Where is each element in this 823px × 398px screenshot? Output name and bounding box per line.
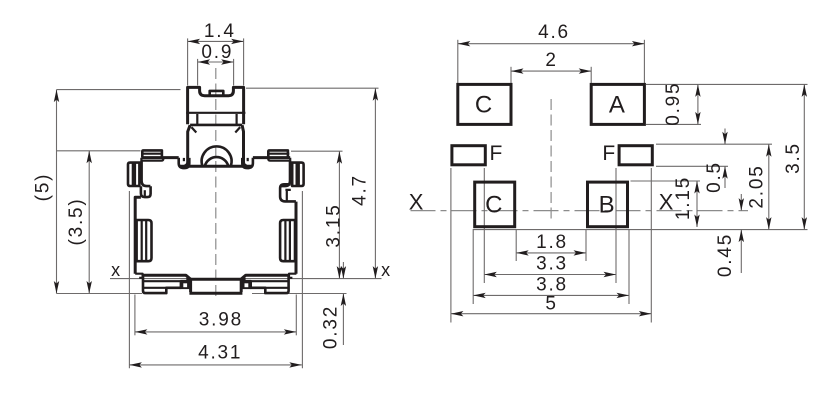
cover bump right inner: [285, 190, 290, 201]
dimension (3.5): [88, 151, 90, 294]
svg-text:(3.5): (3.5): [66, 197, 87, 245]
extension line ext 1.4 right: [243, 38, 245, 85]
plunger skirt inner chamfer right: [235, 127, 240, 132]
side clip upper left: [128, 163, 141, 186]
dimension 4.31: [129, 364, 301, 366]
plunger skirt left: [185, 125, 191, 166]
center tray: [189, 280, 242, 293]
extension line ext pad F bottom: [656, 165, 728, 167]
svg-text:1.4: 1.4: [204, 21, 236, 42]
dimension 0.9: [198, 61, 234, 63]
extension line ext 3.8 right: [628, 229, 630, 304]
side clip lower left slats: [142, 220, 147, 261]
cover top left: [141, 156, 178, 159]
svg-text:X: X: [409, 189, 425, 214]
dome inner arc: [205, 157, 229, 166]
land pattern centerline X-X: [411, 210, 749, 212]
plunger head outline: [188, 87, 244, 124]
side clip lower left: [137, 220, 152, 261]
dimension 1.8: [516, 252, 586, 254]
extension line ext 4.31 left: [128, 191, 130, 368]
svg-text:(5): (5): [33, 173, 54, 202]
extension line ext 1.8 right: [585, 229, 587, 261]
extension line ext pad A top: [646, 83, 808, 85]
svg-text:C: C: [475, 92, 494, 119]
extension line ext pad A bottom: [646, 123, 701, 125]
extension line ext 4.31 right: [301, 191, 303, 368]
bottom flange left: [135, 274, 142, 278]
extension line body top level left: [57, 150, 141, 152]
dimension 3.98: [135, 331, 296, 333]
extension line terminal bottom level left: [57, 293, 143, 295]
cover lip hook right: [242, 158, 253, 168]
dimension 1.15: [696, 181, 698, 227]
dimension 4.7: [374, 88, 376, 278]
svg-text:F: F: [489, 142, 504, 165]
dimension 3.8: [473, 294, 629, 296]
extension line ext 1.4 left: [187, 38, 189, 85]
plunger skirt inner chamfer left: [191, 127, 196, 132]
extension line seating plane x-x: [110, 278, 382, 280]
extension line ext 5 right: [650, 168, 652, 323]
svg-text:4.6: 4.6: [538, 22, 570, 43]
extension line ext 3.8 left: [472, 229, 474, 304]
extension line plunger top level left: [57, 89, 181, 91]
dimension 4.6: [458, 43, 645, 45]
terminal right laminations: [251, 281, 289, 293]
side clip upper right: [290, 163, 303, 186]
cover corner left: [142, 161, 151, 186]
svg-text:3.3: 3.3: [536, 254, 568, 275]
terminal foot left: [181, 280, 190, 289]
terminal right: [251, 275, 289, 293]
extension line plunger top level right: [246, 87, 379, 89]
plunger skirt flange: [190, 124, 242, 127]
bottom flange right: [289, 274, 296, 278]
extension line ext 2 right: [590, 67, 592, 83]
cover tab left: [142, 150, 162, 157]
svg-text:0.32: 0.32: [321, 305, 342, 349]
pad C bottom: [475, 182, 515, 227]
extension line ext 1.8 left: [515, 229, 517, 261]
centerline of switch: [215, 68, 217, 300]
extension line ext 3.3 right: [615, 168, 617, 283]
cover bump right: [280, 184, 296, 201]
svg-text:0.95: 0.95: [663, 82, 684, 126]
dimension 3.15: [338, 151, 340, 278]
svg-text:B: B: [599, 192, 617, 219]
extension line terminal bottom level right: [252, 293, 347, 295]
terminal left laminations: [143, 281, 181, 293]
cover tab left slat: [142, 153, 162, 155]
svg-text:0.5: 0.5: [704, 161, 725, 193]
svg-text:2.05: 2.05: [747, 164, 768, 208]
pad C top: [458, 84, 511, 124]
dimension 0.95: [697, 84, 699, 124]
pad A: [591, 84, 644, 124]
extension line ext pad B top: [631, 180, 701, 182]
dimension 0.32: [342, 262, 344, 279]
svg-text:3.15: 3.15: [324, 203, 345, 247]
svg-text:3.5: 3.5: [783, 142, 804, 174]
plunger button nub: [210, 91, 224, 96]
extension line ext 2 left: [510, 67, 512, 83]
cover lip hook left: [179, 158, 190, 168]
plunger stem walls: [197, 114, 236, 124]
cover lip hook inner left: [183, 158, 185, 161]
cover bump left inner: [144, 190, 146, 197]
extension line ext 3.3 left: [483, 168, 485, 283]
svg-text:x: x: [111, 260, 122, 280]
side clip upper left inner: [133, 163, 135, 186]
extension line ext 3.98 right: [295, 295, 297, 336]
svg-text:0.9: 0.9: [201, 42, 233, 63]
extension line ext 5 left: [450, 168, 452, 323]
extension line ext pads bottom: [473, 229, 808, 231]
center tray top: [186, 278, 245, 281]
extension line ext 4.6 left: [457, 40, 459, 83]
extension line ext pad F top: [656, 143, 772, 145]
svg-text:F: F: [602, 142, 617, 165]
dimension 5: [451, 313, 651, 315]
extension line ext 0.9 left: [197, 59, 199, 86]
terminal plateau left: [143, 275, 191, 279]
svg-text:1.8: 1.8: [536, 232, 568, 253]
dimension 0.5: [724, 129, 726, 145]
dimension 0.45: [740, 194, 742, 211]
pad B: [588, 182, 628, 227]
body left wall: [135, 197, 141, 273]
dimension (5): [56, 90, 58, 294]
cover corner right: [281, 161, 290, 186]
cover top right: [253, 156, 290, 159]
side clip upper right inner: [297, 163, 299, 186]
dimension 1.4: [188, 40, 244, 42]
svg-text:5: 5: [545, 293, 557, 314]
cover tab right base: [268, 158, 290, 161]
svg-text:1.15: 1.15: [673, 176, 694, 220]
pad F left: [452, 146, 485, 165]
cover lip hook inner right: [247, 158, 249, 161]
cover tab right: [268, 150, 288, 157]
plunger collar band: [186, 112, 245, 114]
plunger skirt right: [242, 125, 247, 166]
terminal plateau right: [241, 275, 289, 279]
dome outer arc: [202, 146, 232, 166]
extension line ext 3.98 left: [134, 295, 136, 336]
svg-text:4.31: 4.31: [198, 342, 242, 363]
svg-text:2: 2: [545, 50, 557, 71]
dimension 2: [511, 70, 591, 72]
side clip lower right slats: [285, 220, 290, 261]
svg-text:0.45: 0.45: [715, 233, 736, 277]
svg-text:C: C: [485, 192, 504, 219]
extension line body top level right: [291, 150, 343, 152]
side clip lower right: [280, 220, 295, 261]
body right wall: [295, 202, 298, 274]
terminal foot right: [242, 280, 251, 289]
extension line ext 0.9 right: [233, 59, 235, 86]
extension line ext 4.6 right: [643, 40, 645, 83]
svg-text:x: x: [381, 260, 392, 280]
terminal left: [143, 275, 181, 293]
land pattern centerline vertical: [550, 99, 552, 221]
cover tab right slat: [270, 153, 290, 155]
dimension 3.5: [803, 84, 805, 229]
cover tab left base: [141, 158, 163, 161]
dimension 2.05: [768, 144, 770, 229]
dimension 3.3: [484, 274, 616, 276]
svg-text:4.7: 4.7: [349, 174, 370, 206]
pad F right: [619, 146, 652, 165]
base plate line: [179, 165, 252, 168]
svg-text:3.98: 3.98: [199, 310, 243, 331]
svg-text:A: A: [609, 92, 627, 119]
cover bump left: [141, 186, 151, 197]
